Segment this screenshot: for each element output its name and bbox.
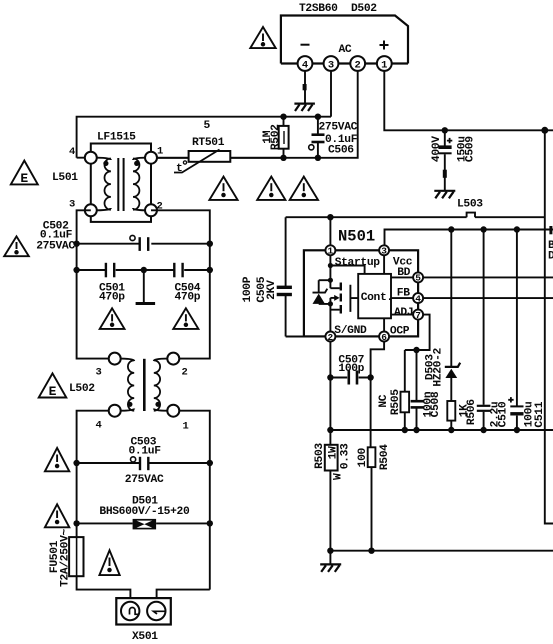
node dot zener top (328, 278, 333, 283)
L501 pin 1 (145, 152, 157, 164)
IC pin 5 (413, 272, 423, 282)
safety E triangle L501 (11, 161, 38, 186)
wire L501 pin3 down left rail (77, 210, 109, 358)
IC pin 7 (413, 310, 423, 320)
thick bar on C509 wire (443, 170, 447, 178)
warning triangle under C504 (173, 308, 198, 329)
svg-text:275VAC: 275VAC (125, 474, 164, 486)
svg-text:Startup: Startup (335, 257, 381, 269)
pin 3 of D502 (324, 56, 339, 71)
svg-text:275VAC: 275VAC (319, 122, 358, 134)
wire S/GND to pin2 (286, 336, 326, 338)
wire L502 pin4 down left rail (77, 411, 109, 537)
L502 pin 4 (109, 405, 121, 417)
zener D503 (425, 230, 461, 402)
svg-text:2: 2 (355, 59, 361, 71)
node dot ADJ/C508 (413, 347, 419, 353)
L502 pin labels (69, 367, 189, 433)
L502 winding right (154, 359, 168, 411)
svg-text:5: 5 (204, 120, 211, 132)
warning triangle row 3 (290, 177, 318, 200)
L501 pin 4 (85, 152, 97, 164)
capacitor C504 (144, 263, 210, 304)
svg-text:HZ20-2: HZ20-2 (432, 347, 444, 386)
drain bus wire y217 (286, 216, 545, 218)
MOSFET drain lead (330, 287, 339, 289)
svg-text:t: t (176, 163, 182, 175)
node dot R502 top (280, 114, 286, 120)
OCP wire pin6 to C507 node (371, 342, 385, 378)
svg-text:R506: R506 (466, 399, 478, 425)
svg-text:6: 6 (381, 332, 387, 343)
warning triangle under C501 (100, 308, 125, 329)
svg-text:1: 1 (381, 59, 387, 71)
svg-text:D502: D502 (351, 3, 377, 15)
svg-text:3: 3 (381, 246, 387, 257)
svg-text:2: 2 (182, 367, 188, 379)
wire L501 pin2 down right rail (151, 210, 210, 358)
svg-text:C506: C506 (328, 145, 354, 157)
svg-text:D: D (548, 251, 553, 263)
warning triangle fuse (99, 550, 119, 575)
resistor R506 (447, 399, 478, 430)
MOSFET gate (350, 285, 358, 312)
svg-text:W: W (333, 473, 345, 480)
node dot startup drop (327, 214, 333, 220)
surge absorber D501 (77, 496, 210, 530)
ADJ wire pin7 (405, 315, 430, 350)
warning triangle D501 (45, 504, 69, 527)
svg-text:4: 4 (415, 293, 421, 304)
pin 1 of D502 (377, 56, 392, 71)
pin 4 of D502 (298, 56, 313, 71)
capacitor C501 (77, 263, 144, 304)
svg-text:AC: AC (339, 44, 352, 56)
wire right rail to X501 (157, 590, 210, 602)
L501 winding right (133, 158, 145, 211)
svg-text:NC: NC (378, 394, 390, 407)
svg-text:2KV: 2KV (266, 280, 278, 300)
svg-text:ADJ: ADJ (394, 307, 413, 319)
node dot HV corner (541, 127, 548, 134)
node dots C503 line (73, 460, 79, 466)
inductor L503 (457, 199, 483, 218)
svg-text:X501: X501 (132, 631, 158, 643)
L501 pin 3 (85, 204, 97, 216)
node dots ground bus (327, 548, 333, 554)
svg-text:LF1515: LF1515 (97, 132, 136, 144)
startup internal wire (330, 255, 364, 288)
ground stub bottom (329, 551, 331, 564)
BD line from pin5 (423, 276, 553, 278)
svg-text:3: 3 (96, 367, 102, 379)
svg-text:3: 3 (69, 199, 75, 211)
off-page labels (548, 240, 553, 263)
capacitor C502 line (36, 221, 210, 253)
capacitor C509 (431, 130, 477, 190)
warning triangle row 2 (257, 177, 285, 200)
thick bar on pin4 wire (303, 84, 307, 90)
svg-text:E: E (49, 384, 57, 399)
svg-text:470p: 470p (99, 292, 125, 304)
ground under C509 (434, 191, 455, 199)
internal pin6 wire (383, 318, 385, 331)
svg-text:275VAC: 275VAC (36, 241, 75, 253)
svg-text:L501: L501 (52, 172, 78, 184)
internal pin3 wire (383, 255, 385, 274)
svg-text:1: 1 (328, 246, 334, 257)
warning triangle C503 (45, 448, 69, 471)
L502 winding left (120, 359, 134, 411)
off-page tick BD rail (549, 226, 552, 234)
ground under pin 4 (294, 104, 315, 111)
sense bus y430 (330, 429, 553, 431)
capacitor C511 (508, 230, 546, 431)
MOSFET Q1 channel (340, 283, 342, 314)
thermistor RT501 (157, 120, 283, 175)
svg-text:5: 5 (415, 273, 421, 284)
svg-text:3: 3 (328, 59, 334, 71)
L502 pin 2 (167, 353, 179, 365)
node dots sense bus (327, 427, 333, 433)
svg-text:E: E (20, 171, 28, 186)
svg-text:S/GND: S/GND (334, 325, 367, 337)
FB line from pin4 (423, 297, 553, 299)
L501 core (118, 158, 123, 211)
capacitor C505 (242, 276, 292, 336)
MOSFET body arrow (330, 297, 334, 299)
node dots D501 line (73, 520, 79, 526)
svg-text:7: 7 (415, 310, 421, 321)
ground stub between C501 C504 (136, 270, 156, 304)
svg-text:100P: 100P (242, 276, 254, 302)
node dots Vcc rail (448, 226, 454, 232)
svg-text:1W: 1W (328, 446, 340, 459)
wire: AC top line to LF1515 pin4 (77, 117, 331, 158)
wire pin2 down (329, 342, 331, 445)
ground bus y550 (330, 550, 553, 552)
L502 pin 1 (167, 405, 179, 417)
svg-text:N501: N501 (338, 228, 375, 246)
svg-text:R502: R502 (270, 124, 282, 150)
svg-text:T2A/250V~: T2A/250V~ (60, 529, 72, 587)
IC N501 box (304, 228, 418, 337)
IC pin 2 (325, 332, 335, 342)
svg-text:100p: 100p (338, 363, 364, 375)
node dot C506 bottom (315, 155, 321, 161)
svg-text:400V: 400V (431, 136, 443, 162)
IC pin names (334, 257, 413, 338)
svg-text:C509: C509 (465, 136, 477, 162)
svg-text:4: 4 (302, 59, 308, 71)
connector X501 (116, 598, 171, 643)
svg-text:0.33: 0.33 (340, 443, 352, 469)
wire OCP node down to R504 (370, 378, 372, 448)
resistor R504 (357, 444, 391, 551)
bridge rectifier D502 T2SB60 body (281, 3, 408, 64)
body zener D-int (313, 280, 331, 304)
capacitor C506 (309, 117, 358, 158)
svg-text:4: 4 (96, 420, 102, 432)
svg-text:100: 100 (357, 447, 369, 467)
wire snubber branch down (285, 217, 287, 286)
wire pin4 to ground (304, 71, 306, 103)
node dots C501/C504 line (73, 267, 79, 273)
node dot startup tap (328, 263, 333, 268)
L501 pin labels (52, 146, 163, 213)
svg-text:R505: R505 (390, 389, 402, 415)
L502 pin 3 (109, 353, 121, 365)
svg-text:470p: 470p (175, 292, 201, 304)
node dot C509 top (442, 127, 448, 133)
resistor R503 (314, 443, 352, 551)
MOSFET source side (330, 298, 339, 332)
resistor R505 NC (378, 350, 409, 430)
svg-text:C511: C511 (534, 401, 546, 427)
wire pin1 down to HV line (384, 71, 553, 130)
IC pin digits (328, 246, 422, 343)
svg-text:Cont.: Cont. (361, 292, 393, 304)
node dot R502 bottom (280, 155, 286, 161)
capacitor C507 (330, 354, 370, 384)
svg-text:T2SB60: T2SB60 (299, 3, 338, 15)
node dot zener bottom (328, 301, 333, 306)
svg-text:RT501: RT501 (192, 137, 225, 149)
common-mode choke L501 LF1515 box (91, 132, 151, 222)
svg-text:BHS600V/-15+20: BHS600V/-15+20 (99, 506, 190, 518)
pin 2 of D502 (350, 56, 365, 71)
svg-text:R504: R504 (379, 444, 391, 470)
capacitor C503 line (77, 437, 210, 487)
wire fuse to X501 (77, 576, 131, 602)
L501 pin 2 (145, 204, 157, 216)
node dot C506 top (315, 114, 321, 120)
IC pin 4 (413, 293, 423, 303)
svg-text:4: 4 (69, 146, 75, 158)
svg-text:C508: C508 (430, 391, 442, 417)
svg-text:OCP: OCP (390, 326, 410, 338)
Cont. block U1 (358, 274, 393, 318)
safety E triangle L502 (39, 373, 67, 399)
wire HV right vertical (545, 130, 553, 523)
ground symbol bottom (320, 564, 341, 572)
svg-text:L502: L502 (69, 383, 95, 395)
capacitor C510 (477, 230, 510, 431)
L501 winding left (97, 158, 111, 211)
IC pin 6 (379, 332, 389, 342)
Vcc rail wire (385, 230, 553, 246)
svg-text:1: 1 (157, 146, 163, 158)
warning triangle C502 (4, 236, 29, 256)
wire pin2 down to RT501 line (157, 71, 357, 158)
resistor R502 (262, 117, 289, 158)
svg-text:2: 2 (328, 332, 334, 343)
warning triangle near bridge (250, 27, 275, 48)
internal BD FB ADJ leads (391, 277, 413, 314)
warning triangle row 1 (209, 177, 237, 200)
L502 core (143, 359, 146, 411)
svg-text:1: 1 (183, 421, 189, 433)
svg-text:0.1uF: 0.1uF (129, 446, 162, 458)
svg-text:L503: L503 (457, 199, 483, 211)
IC pin 3 (379, 245, 389, 255)
node dots C502 line (73, 241, 79, 247)
wire pin3 down (330, 71, 332, 117)
svg-text:C510: C510 (498, 401, 510, 427)
fuse FU501 (49, 529, 84, 587)
node dot C507 left (327, 374, 333, 380)
node dot C507 right (367, 374, 373, 380)
wire L502 pin1 down right rail (179, 411, 210, 590)
wire startup drop to pin1 (329, 217, 331, 245)
svg-text:R503: R503 (314, 443, 326, 469)
IC pin 1 (325, 245, 335, 255)
capacitor C508 (411, 350, 442, 430)
